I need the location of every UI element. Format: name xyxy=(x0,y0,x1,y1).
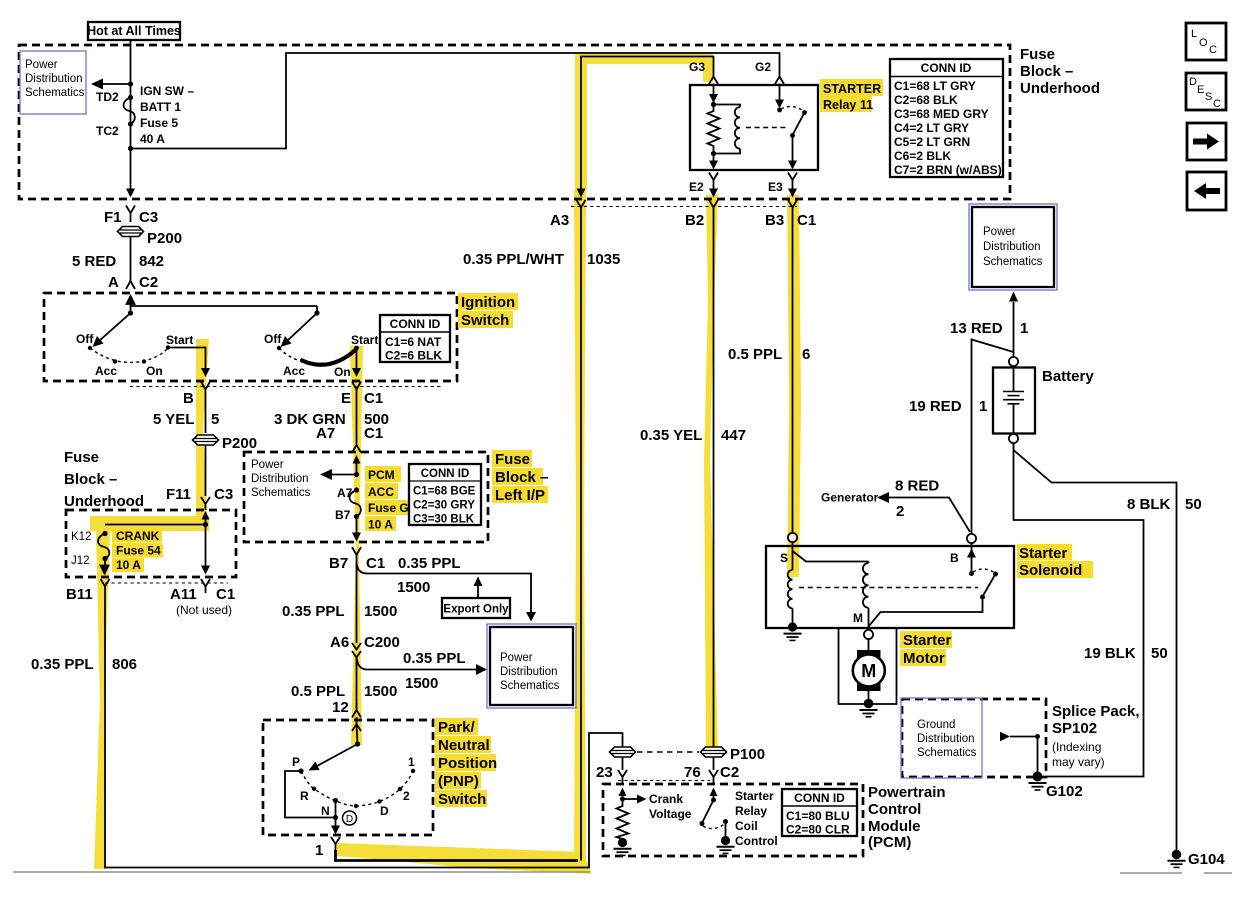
wire highlight: relay G3 feed and wire 1035 top xyxy=(575,52,713,190)
contact Acc (right pole) xyxy=(283,358,305,378)
connector F1/C3 chevron xyxy=(104,206,158,227)
conn id box (PCM) xyxy=(782,789,857,837)
svg-text:0.35 PPL/WHT: 0.35 PPL/WHT xyxy=(463,251,564,268)
svg-text:1500: 1500 xyxy=(364,603,397,620)
svg-text:C1: C1 xyxy=(216,586,235,603)
svg-text:5: 5 xyxy=(211,411,219,428)
connector B chevron xyxy=(183,382,210,408)
svg-text:2: 2 xyxy=(403,789,410,803)
connector P100 pin 23 disc xyxy=(610,747,636,757)
wire: 3 DK GRN 500 segment xyxy=(274,397,389,442)
pin A7 xyxy=(337,486,359,500)
svg-text:CONN ID: CONN ID xyxy=(390,317,441,331)
terminal: battery negative xyxy=(1009,434,1018,443)
wire: arrow to power distribution schematics xyxy=(320,469,357,480)
svg-text:B7: B7 xyxy=(329,555,348,572)
svg-text:C3=30 BLK: C3=30 BLK xyxy=(413,514,475,526)
relay coil xyxy=(714,105,741,154)
nav icon forward arrow xyxy=(1187,123,1226,160)
reference box: Power Distribution Schematics (right) xyxy=(969,204,1057,290)
dashed PNP travel arc xyxy=(301,771,413,806)
svg-text:(PNP): (PNP) xyxy=(438,773,479,790)
wire: P contact to N output xyxy=(285,771,336,818)
connector A/C2 chevron xyxy=(108,274,158,291)
node: PNP pivot xyxy=(355,741,360,746)
wire: PNP input xyxy=(357,724,358,744)
svg-text:Fuse G: Fuse G xyxy=(368,501,409,515)
nav icon DESC xyxy=(1186,73,1226,110)
svg-text:Switch: Switch xyxy=(438,791,486,808)
svg-text:8 RED: 8 RED xyxy=(895,478,939,495)
svg-text:TD2: TD2 xyxy=(96,90,119,104)
svg-text:Ground: Ground xyxy=(917,719,955,731)
svg-text:0.5 PPL: 0.5 PPL xyxy=(728,346,782,363)
ground: driver ground xyxy=(717,836,735,854)
svg-text:Battery: Battery xyxy=(1042,368,1094,385)
svg-text:Power: Power xyxy=(500,652,533,664)
svg-text:E: E xyxy=(1197,84,1204,96)
svg-text:806: 806 xyxy=(112,656,137,673)
dashed travel arc right pole xyxy=(279,348,302,361)
contact D with circled D marker xyxy=(343,799,390,825)
relay switch: G2 entry arrow xyxy=(775,84,784,109)
dashed relay contact travel arc xyxy=(781,107,804,112)
wire: battery positive to power distribution (13 RED 1) xyxy=(950,292,1028,358)
svg-text:C: C xyxy=(1213,98,1221,110)
svg-text:Fuse: Fuse xyxy=(64,449,99,466)
dashed actuation line to solenoid contact xyxy=(799,587,978,589)
PCM pull-down resistor xyxy=(617,799,629,839)
connector strip inside PCM xyxy=(618,780,710,782)
wire: solenoid switch to M terminal xyxy=(869,597,983,627)
svg-text:5 RED: 5 RED xyxy=(72,253,116,270)
svg-text:SP102: SP102 xyxy=(1052,720,1097,737)
svg-text:C2: C2 xyxy=(720,764,739,781)
svg-text:40 A: 40 A xyxy=(140,132,165,146)
contact: relay open contact xyxy=(802,110,807,115)
svg-text:Position: Position xyxy=(438,755,497,772)
ground: solenoid winding ground xyxy=(784,622,802,640)
reference box: Ground Distribution Schematics xyxy=(901,698,982,778)
svg-text:C1: C1 xyxy=(366,555,385,572)
svg-text:C6=2 BLK: C6=2 BLK xyxy=(894,149,951,163)
svg-text:Distribution: Distribution xyxy=(917,733,975,745)
wire: junction to crank fuse xyxy=(105,524,206,526)
terminal: battery positive xyxy=(1009,357,1018,366)
label Park/Neutral Position (PNP) Switch xyxy=(435,718,497,808)
label Splice Pack SP102 xyxy=(1052,703,1140,769)
wire: G3 feed from circuit 1035 xyxy=(581,57,714,196)
svg-text:IGN SW –: IGN SW – xyxy=(140,84,194,98)
svg-text:1: 1 xyxy=(979,398,987,415)
svg-text:C1=68 LT GRY: C1=68 LT GRY xyxy=(894,79,976,93)
svg-text:C2=80 CLR: C2=80 CLR xyxy=(786,823,850,837)
svg-text:2: 2 xyxy=(896,503,904,520)
svg-text:Control: Control xyxy=(868,801,921,818)
svg-text:M: M xyxy=(861,661,876,681)
svg-text:Hot at All Times: Hot at All Times xyxy=(87,24,181,38)
solenoid pull-in winding xyxy=(788,551,793,624)
ground: starter motor ground xyxy=(860,691,878,717)
svg-text:C: C xyxy=(1209,44,1217,56)
wire: ignition internal rail xyxy=(131,305,318,307)
svg-text:1500: 1500 xyxy=(364,683,397,700)
page rule gray lines xyxy=(13,872,1232,873)
wire: start contact to E output xyxy=(352,348,361,377)
label "Hot at All Times" xyxy=(87,22,181,40)
wire highlight: circuit 806 B11 vertical xyxy=(94,531,110,869)
PCM starter relay coil control: entry arrow xyxy=(710,788,718,800)
svg-text:P: P xyxy=(292,755,300,769)
svg-text:B2: B2 xyxy=(685,212,704,229)
svg-text:1035: 1035 xyxy=(587,251,620,268)
contact: solenoid fixed contact xyxy=(969,571,974,576)
svg-text:E: E xyxy=(341,390,351,407)
svg-text:may vary): may vary) xyxy=(1052,755,1105,769)
svg-text:1: 1 xyxy=(315,842,323,859)
contact Start (right pole) xyxy=(351,333,378,350)
wire: arrow Crank Voltage xyxy=(623,792,692,821)
svg-text:Crank: Crank xyxy=(649,792,683,806)
svg-text:Relay 11: Relay 11 xyxy=(823,98,873,112)
svg-text:CONN ID: CONN ID xyxy=(421,468,470,480)
wire highlight: ignition E wire circuit 500/1500 down to PNP xyxy=(350,346,363,745)
svg-text:8 BLK: 8 BLK xyxy=(1127,496,1171,513)
svg-text:S: S xyxy=(780,551,788,565)
svg-text:N: N xyxy=(321,804,330,818)
conn id box (underhood fuse block) xyxy=(890,59,1003,177)
svg-text:B3: B3 xyxy=(765,212,784,229)
solenoid hold-in winding xyxy=(863,562,869,631)
label Starter Motor xyxy=(900,631,952,667)
node: coil bottom junction xyxy=(711,151,716,156)
fuse block left IP dashed box xyxy=(244,452,488,542)
relay coil branch: entry arrow xyxy=(709,84,718,105)
svg-text:E2: E2 xyxy=(689,180,704,194)
svg-text:Park/: Park/ xyxy=(438,719,476,736)
wire highlight: circuit 447 B2 vertical xyxy=(704,195,718,750)
contact: relay fixed contact xyxy=(777,108,782,113)
connector A3 chevron xyxy=(550,200,586,229)
wire: pivot to E3 with arrow xyxy=(788,137,797,170)
svg-text:C2=68 BLK: C2=68 BLK xyxy=(894,93,958,107)
ground: PCM crank voltage ground xyxy=(614,838,632,856)
svg-text:B11: B11 xyxy=(66,586,93,603)
wire: pin 76 into PCM xyxy=(713,757,715,770)
wire: N output with arrow xyxy=(331,801,340,835)
svg-text:Off: Off xyxy=(264,332,282,346)
svg-text:C1=6 NAT: C1=6 NAT xyxy=(385,335,442,349)
svg-text:Module: Module xyxy=(868,818,921,835)
contact Off (left pole) xyxy=(76,332,94,350)
svg-text:(Indexing: (Indexing xyxy=(1052,740,1101,754)
node: right pole rail end xyxy=(314,306,319,316)
ground G104 xyxy=(1168,850,1226,868)
svg-text:Block –: Block – xyxy=(1020,63,1073,80)
crank fuse dashed box xyxy=(66,510,236,577)
pin TC2 xyxy=(96,121,133,138)
connector A7/C1 chevron into left IP fuse block xyxy=(352,438,361,453)
terminal: solenoid S xyxy=(788,533,797,542)
svg-text:P200: P200 xyxy=(147,230,182,247)
svg-text:Neutral: Neutral xyxy=(438,737,490,754)
contact P xyxy=(292,755,304,774)
svg-text:C1: C1 xyxy=(364,425,383,442)
starter motor M xyxy=(853,650,885,691)
svg-text:C3: C3 xyxy=(214,486,233,503)
svg-text:Underhood: Underhood xyxy=(1020,80,1100,97)
wire: 19 BLK 50 battery negative to splice pack xyxy=(1014,443,1168,777)
dashed travel arc left pole xyxy=(90,348,168,362)
svg-text:Schematics: Schematics xyxy=(917,747,977,759)
svg-text:Fuse: Fuse xyxy=(495,451,530,468)
terminal: solenoid M xyxy=(864,630,873,639)
svg-text:ACC: ACC xyxy=(368,485,394,499)
wire: circuit 447 vertical xyxy=(640,214,746,747)
wire highlight: circuit 1035 A3 vertical xyxy=(574,190,586,862)
svg-text:C5=2 LT GRN: C5=2 LT GRN xyxy=(894,135,970,149)
connector strip below ignition switch xyxy=(130,386,443,388)
wire: generator reference 8 RED 2 xyxy=(821,478,970,533)
svg-text:A7: A7 xyxy=(316,425,335,442)
label Fuse Block - Underhood (top right) xyxy=(1020,46,1100,97)
wire: entry arrow into crank fuse box xyxy=(202,511,210,525)
PCM dashed box xyxy=(603,784,863,856)
svg-text:C4=2 LT GRY: C4=2 LT GRY xyxy=(894,121,969,135)
wire: PNP output joining circuit 1035 xyxy=(336,850,579,861)
svg-text:Solenoid: Solenoid xyxy=(1019,562,1082,579)
svg-text:C3: C3 xyxy=(139,209,158,226)
svg-text:6: 6 xyxy=(802,346,810,363)
conn id box (left IP) xyxy=(409,464,481,526)
svg-text:Switch: Switch xyxy=(461,312,509,329)
contact R xyxy=(300,787,316,804)
pin TD2 xyxy=(96,90,133,104)
connector 1 chevron below PNP xyxy=(315,837,340,859)
terminal E3 chevron xyxy=(768,173,797,198)
fuse CRANK Fuse 54 10 A xyxy=(98,527,163,572)
wire: start contact to B output xyxy=(168,348,210,378)
node: junction to power distribution arrow xyxy=(128,81,133,86)
label Export Only with arrow xyxy=(442,577,510,619)
svg-text:CRANK: CRANK xyxy=(116,529,160,543)
svg-text:Starter: Starter xyxy=(1019,545,1068,562)
svg-text:Motor: Motor xyxy=(903,650,945,667)
svg-text:842: 842 xyxy=(139,253,164,270)
node: crank fuse junction xyxy=(203,522,208,527)
pin J12 xyxy=(71,555,108,567)
label Powertrain Control Module (PCM) xyxy=(868,784,946,851)
svg-text:Off: Off xyxy=(76,332,94,346)
svg-text:50: 50 xyxy=(1185,496,1202,513)
terminal G2 chevron xyxy=(755,60,784,84)
wire: 5 YEL 5 segment xyxy=(153,397,219,433)
svg-text:D: D xyxy=(380,804,389,818)
label Ignition Switch xyxy=(458,293,518,329)
svg-text:13 RED: 13 RED xyxy=(950,320,1003,337)
svg-text:0.35 PPL: 0.35 PPL xyxy=(398,555,461,572)
svg-text:Voltage: Voltage xyxy=(649,807,692,821)
svg-text:C200: C200 xyxy=(364,634,400,651)
svg-text:Schematics: Schematics xyxy=(251,487,311,499)
svg-text:J12: J12 xyxy=(71,555,90,567)
svg-text:Control: Control xyxy=(735,834,778,848)
svg-text:On: On xyxy=(334,365,351,379)
wire: 0.35 PPL 1500 branch to export power distribution xyxy=(357,563,537,622)
contact N xyxy=(321,798,338,818)
svg-text:C1=80 BLU: C1=80 BLU xyxy=(786,809,850,823)
dashed driver travel arc xyxy=(703,824,725,829)
svg-text:50: 50 xyxy=(1151,645,1168,662)
svg-text:Relay: Relay xyxy=(735,804,767,818)
contact Start (left pole) xyxy=(166,333,194,350)
wire: 19 RED 1 branch to solenoid B xyxy=(909,340,1014,535)
svg-text:Distribution: Distribution xyxy=(251,473,309,485)
svg-text:A3: A3 xyxy=(550,212,569,229)
svg-text:S: S xyxy=(1205,91,1212,103)
label PCM / ACC highlighted xyxy=(365,466,401,499)
svg-text:1: 1 xyxy=(408,755,415,769)
svg-text:Power: Power xyxy=(25,59,58,71)
wire: A11 not used branch xyxy=(201,525,210,575)
svg-text:0.35 PPL: 0.35 PPL xyxy=(31,656,94,673)
wire: entry arrow into fuse G xyxy=(353,455,361,475)
contact On (left pole) xyxy=(142,359,163,378)
svg-text:F1: F1 xyxy=(104,209,122,226)
contact Acc (left pole) xyxy=(95,359,117,378)
svg-text:C1: C1 xyxy=(797,212,816,229)
starter solenoid box xyxy=(766,546,1014,628)
svg-text:12: 12 xyxy=(332,699,349,716)
PCM driver switch arm xyxy=(700,800,714,826)
starter relay box xyxy=(690,85,818,170)
svg-text:19 RED: 19 RED xyxy=(909,398,962,415)
connector P100 pin 76 disc xyxy=(701,746,766,763)
splice pack dashed box xyxy=(902,699,1046,777)
svg-text:Coil: Coil xyxy=(735,819,758,833)
conn id box (ignition switch) xyxy=(380,315,450,363)
connector B7/C1 chevron xyxy=(329,547,461,572)
switch arm left pole (points Off) xyxy=(93,313,131,347)
svg-text:Underhood: Underhood xyxy=(64,493,144,510)
svg-text:Fuse: Fuse xyxy=(1020,46,1055,63)
svg-text:447: 447 xyxy=(721,427,746,444)
wire: arrowhead into boundary at F1 xyxy=(126,189,135,198)
svg-text:Schematics: Schematics xyxy=(983,256,1043,268)
svg-text:C2=6 BLK: C2=6 BLK xyxy=(385,349,442,363)
wire: M terminal to motor xyxy=(868,639,870,652)
contact 2 xyxy=(398,787,410,803)
svg-text:(PCM): (PCM) xyxy=(868,834,911,851)
svg-text:Generator: Generator xyxy=(821,491,879,505)
wire: fuse G output arrow to box edge xyxy=(352,517,361,542)
svg-text:Fuse 5: Fuse 5 xyxy=(140,116,178,130)
svg-text:Distribution: Distribution xyxy=(983,241,1041,253)
svg-text:0.35 PPL: 0.35 PPL xyxy=(282,603,345,620)
node: crank voltage junction xyxy=(620,797,625,802)
switch arm right pole (points Off) xyxy=(281,313,318,347)
svg-text:76: 76 xyxy=(684,764,701,781)
svg-text:R: R xyxy=(300,789,309,803)
wire: segment 0.35 PPL 1500 xyxy=(282,563,397,643)
PNP switch dashed box xyxy=(263,720,433,835)
svg-text:Export Only: Export Only xyxy=(443,604,509,616)
dashed solenoid contact travel arc xyxy=(973,569,995,573)
connector 76/C2 chevron xyxy=(684,764,739,783)
svg-text:C7=2 BRN (w/ABS): C7=2 BRN (w/ABS) xyxy=(894,163,1002,177)
connector A6/C200 double chevron xyxy=(330,634,400,658)
reference box: Power Distribution Schematics (top left) xyxy=(20,51,86,114)
solenoid switch arm and pivot xyxy=(980,574,996,600)
splice wire with arrow xyxy=(1000,732,1040,773)
svg-text:Schematics: Schematics xyxy=(25,87,85,99)
solenoid switch: B entry arrow xyxy=(950,543,976,573)
node: fuse G input junction xyxy=(354,472,359,477)
ignition switch dashed box xyxy=(44,293,457,381)
wire: S terminal into coils xyxy=(793,542,869,562)
svg-text:D: D xyxy=(346,814,353,825)
dashed actuation link coil to switch xyxy=(746,127,788,129)
fuse IGN SW - BATT 1 Fuse 5 40 A xyxy=(124,84,195,146)
svg-text:Schematics: Schematics xyxy=(500,680,560,692)
svg-text:Ignition: Ignition xyxy=(461,294,515,311)
svg-text:0.5 PPL: 0.5 PPL xyxy=(291,683,345,700)
svg-text:1500: 1500 xyxy=(397,579,430,596)
wire: branch arrow to power distribution schematics (mid) xyxy=(357,650,488,692)
svg-text:Block –: Block – xyxy=(64,471,117,488)
node: coil top junction xyxy=(711,102,716,107)
wire highlight: ignition start B wire down left pole xyxy=(196,339,209,519)
terminal E2 chevron xyxy=(689,173,718,198)
contact: solenoid open contact xyxy=(993,572,998,577)
connector P200 (B wire) xyxy=(193,435,258,452)
svg-text:Fuse 54: Fuse 54 xyxy=(116,544,161,558)
connector P200 (left) xyxy=(118,227,183,248)
fuse G 10 A element xyxy=(350,490,410,532)
reference: power distribution schematics (inside left IP) xyxy=(251,459,311,499)
starter assembly bracket xyxy=(839,628,897,704)
nav icon back arrow xyxy=(1187,172,1226,210)
svg-text:Block –: Block – xyxy=(495,469,548,486)
svg-text:O: O xyxy=(1199,37,1208,49)
wire: coil to E2 with arrow xyxy=(709,154,718,170)
heavy engaged contact arc On-Start xyxy=(302,349,357,379)
svg-text:On: On xyxy=(146,364,163,378)
svg-text:CONN ID: CONN ID xyxy=(794,791,845,805)
label Fuse Block - Underhood (left) xyxy=(64,449,144,510)
svg-text:F11: F11 xyxy=(166,486,191,503)
battery xyxy=(993,366,1094,434)
svg-text:19 BLK: 19 BLK xyxy=(1084,645,1136,662)
svg-text:23: 23 xyxy=(596,764,613,781)
svg-text:B7: B7 xyxy=(335,508,351,522)
wire: circuit 806 B11 down and across to PCM pin 23 xyxy=(31,593,623,868)
wire: circuit 1035 vertical xyxy=(463,214,620,861)
dashed link between P100 halves xyxy=(637,751,699,753)
svg-text:Power: Power xyxy=(251,459,284,471)
svg-text:C3=68 MED GRY: C3=68 MED GRY xyxy=(894,107,989,121)
svg-text:Left I/P: Left I/P xyxy=(495,487,545,504)
pin B7 xyxy=(335,508,359,522)
svg-text:P100: P100 xyxy=(730,746,765,763)
svg-text:Start: Start xyxy=(166,333,193,347)
nav icon LOC xyxy=(1186,23,1226,60)
svg-text:Starter: Starter xyxy=(903,632,952,649)
relay resistor xyxy=(708,105,720,154)
svg-text:C2=30 GRY: C2=30 GRY xyxy=(413,500,475,512)
svg-text:M: M xyxy=(853,611,863,625)
svg-text:1: 1 xyxy=(1020,320,1028,337)
